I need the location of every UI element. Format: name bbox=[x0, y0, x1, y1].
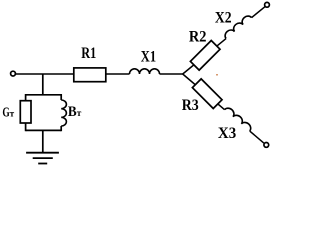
resistor R2 bbox=[190, 40, 220, 70]
resistor R1 bbox=[74, 68, 106, 82]
wire to ground bbox=[42, 130, 44, 152]
wire X3 to terminal bbox=[250, 131, 264, 143]
wire Gt bottom stub bbox=[25, 123, 27, 131]
inductor X3 bbox=[225, 106, 253, 131]
terminal left input bbox=[11, 71, 16, 76]
inductor X1 bbox=[130, 69, 160, 74]
terminal bottom right bbox=[264, 143, 269, 148]
wire shunt bottom rail bbox=[26, 129, 62, 131]
wire Bt top stub bbox=[60, 94, 62, 100]
svg-text:R1: R1 bbox=[81, 45, 96, 62]
wire input to R1 bbox=[16, 73, 74, 75]
inductor X2 bbox=[223, 14, 252, 39]
resistor R3 bbox=[192, 79, 222, 109]
svg-text:X3: X3 bbox=[218, 125, 237, 142]
svg-text:X2: X2 bbox=[215, 9, 232, 26]
ground bbox=[26, 153, 59, 164]
terminal top right bbox=[265, 2, 270, 7]
wire R1 to X1 bbox=[106, 73, 130, 75]
wire Bt bottom stub bbox=[60, 126, 62, 131]
conductance Gt box bbox=[20, 101, 31, 123]
susceptance Bt coil bbox=[61, 100, 66, 126]
svg-text:X1: X1 bbox=[141, 49, 156, 66]
wire shunt top rail bbox=[26, 94, 62, 96]
wire Gt top stub bbox=[25, 94, 27, 101]
wire junction to R2 bbox=[183, 39, 226, 74]
svg-text:R2: R2 bbox=[189, 28, 207, 45]
stray mark bbox=[216, 74, 218, 76]
wire junction to R3 bbox=[183, 74, 225, 110]
wire X1 to junction node bbox=[160, 73, 183, 75]
svg-text:R3: R3 bbox=[182, 97, 199, 114]
wire shunt feed bbox=[42, 74, 44, 95]
wire X2 to terminal bbox=[252, 7, 265, 18]
